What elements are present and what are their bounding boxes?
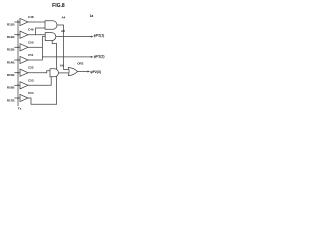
svg-text:OR2: OR2 (77, 61, 84, 65)
svg-text:R11B: R11B (7, 22, 15, 26)
svg-text:1a: 1a (90, 14, 94, 18)
svg-text:FIG.8: FIG.8 (52, 3, 65, 9)
svg-text:C54: C54 (28, 91, 34, 95)
svg-text:φP2(1): φP2(1) (94, 33, 105, 37)
svg-text:R15B: R15B (7, 73, 16, 77)
svg-text:R17B: R17B (7, 98, 16, 102)
svg-text:C50: C50 (28, 40, 34, 44)
svg-text:A8: A8 (61, 29, 65, 33)
svg-text:R14B: R14B (7, 60, 16, 64)
svg-text:A4: A4 (62, 16, 66, 20)
svg-text:R16B: R16B (7, 86, 16, 90)
svg-text:C51: C51 (28, 53, 34, 57)
svg-text:φP2(2): φP2(2) (94, 54, 105, 58)
svg-text:R12B: R12B (7, 35, 16, 39)
svg-text:C49: C49 (28, 28, 34, 32)
svg-text:C48: C48 (28, 15, 34, 19)
svg-text:R13B: R13B (7, 48, 16, 52)
svg-text:φP2(3): φP2(3) (90, 70, 101, 74)
svg-text:A6: A6 (60, 63, 64, 67)
svg-text:Tx: Tx (18, 107, 22, 111)
svg-text:C52: C52 (28, 66, 34, 70)
svg-text:C53: C53 (28, 78, 34, 82)
